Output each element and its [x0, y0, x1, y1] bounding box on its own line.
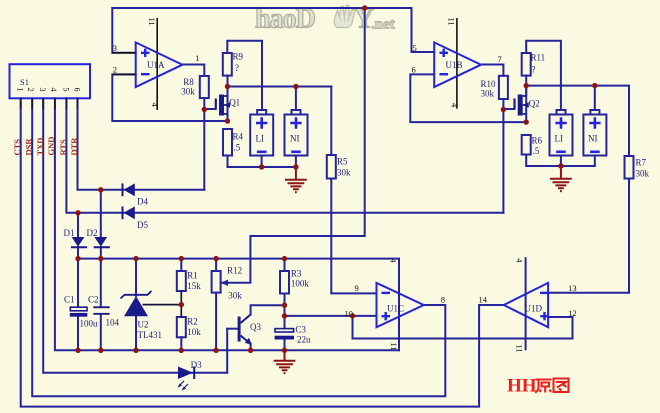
- svg-text:1: 1: [16, 88, 25, 92]
- battery NI right: [583, 110, 606, 156]
- svg-text:C2: C2: [88, 295, 99, 305]
- wire GND rail: [55, 98, 399, 350]
- BJT Q3: [238, 315, 252, 346]
- svg-text:D3: D3: [191, 360, 202, 370]
- svg-text:R2: R2: [187, 317, 198, 327]
- svg-text:D5: D5: [137, 220, 148, 230]
- wire R3 column with C3: [284, 259, 286, 351]
- svg-text:100u: 100u: [80, 319, 99, 329]
- wire Q2 gate lead: [503, 108, 514, 110]
- svg-text:3: 3: [38, 88, 47, 92]
- diode D4: [123, 183, 135, 196]
- svg-text:30k: 30k: [337, 168, 351, 178]
- wire R8 bottom to gate junction and D4 line: [203, 98, 205, 190]
- svg-text:22u: 22u: [297, 335, 311, 345]
- svg-text:2: 2: [113, 65, 117, 75]
- wire DSR to U1C output pin8: [32, 98, 445, 396]
- wire R10 bottom to Q2 gate junction and RTS line: [502, 99, 504, 213]
- wire Q2 drain source column: [525, 86, 527, 123]
- wire U1A output to R8: [182, 65, 204, 77]
- op-amp U1A: [112, 18, 182, 110]
- svg-text:CTS: CTS: [12, 139, 22, 156]
- MOSFET Q1: [216, 95, 230, 116]
- svg-text:14: 14: [479, 295, 488, 305]
- potentiometer R12: [212, 271, 229, 293]
- svg-text:3: 3: [113, 43, 117, 53]
- svg-text:LI: LI: [256, 134, 265, 144]
- svg-text:8: 8: [441, 295, 445, 305]
- resistor R6: [522, 135, 531, 155]
- svg-text:7: 7: [498, 54, 502, 64]
- resistor R3: [280, 271, 289, 294]
- svg-text:R3: R3: [291, 269, 302, 279]
- wire R6 stub and right battery bottom rail: [526, 155, 595, 167]
- wire right NI top lead: [594, 86, 596, 110]
- svg-text:15k: 15k: [187, 281, 201, 291]
- battery LI left: [250, 110, 273, 156]
- wire riser from top rail to RTS net and R12 wiper: [221, 8, 365, 283]
- red caption HH original: [507, 376, 569, 397]
- svg-text:U1D: U1D: [525, 304, 543, 314]
- svg-text:11: 11: [515, 345, 525, 353]
- svg-text:RTS: RTS: [58, 139, 68, 156]
- wire U2 column: [135, 259, 137, 351]
- svg-text:R6: R6: [532, 136, 543, 146]
- svg-text:10k: 10k: [187, 327, 201, 337]
- op-amp U1B: [434, 18, 481, 109]
- wire U2 ref to R1 R2 junction: [21, 98, 182, 317]
- svg-text:R4: R4: [233, 132, 244, 142]
- capacitor C3: [275, 329, 294, 340]
- op-amp U1C: [377, 283, 424, 327]
- svg-text:D4: D4: [137, 197, 148, 207]
- wire R11 bottom to Q2 drain: [525, 76, 527, 95]
- diode D2: [94, 237, 110, 247]
- svg-text:R11: R11: [531, 53, 546, 63]
- svg-text:R12: R12: [227, 266, 242, 276]
- svg-text:C1: C1: [64, 295, 75, 305]
- svg-text:Q3: Q3: [250, 322, 261, 332]
- ground C3: [274, 350, 296, 373]
- ground left battery: [285, 167, 307, 192]
- resistor R9: [223, 53, 232, 76]
- wire C2 column: [100, 259, 102, 351]
- TL431 U2: [121, 291, 152, 316]
- svg-text:DTR: DTR: [69, 137, 79, 156]
- wire top rail left drop to U1A pin3: [112, 8, 135, 53]
- svg-text:R10: R10: [481, 79, 497, 89]
- wire R12 column: [215, 259, 217, 351]
- svg-text:5: 5: [61, 88, 70, 92]
- svg-text:R9: R9: [233, 52, 244, 62]
- svg-text:NI: NI: [588, 134, 598, 144]
- svg-text:Q1: Q1: [229, 98, 240, 108]
- svg-text:1: 1: [195, 53, 199, 63]
- svg-text:LI: LI: [555, 134, 564, 144]
- svg-text:TXD: TXD: [35, 138, 45, 156]
- wire Q1 gate lead: [204, 108, 215, 110]
- svg-text:6: 6: [72, 88, 81, 92]
- svg-text:D1: D1: [64, 228, 75, 238]
- battery NI left: [285, 110, 308, 156]
- svg-text:6: 6: [412, 65, 416, 75]
- resistor R8: [200, 76, 209, 98]
- wire U1B pin6 feedback to Q2 source: [410, 74, 526, 122]
- wire NI left top lead: [295, 87, 297, 111]
- watermark haoDIY.net logo: [255, 4, 395, 35]
- wire U1A pin2 feedback to Q1 source: [112, 74, 227, 121]
- resistor R1: [177, 271, 186, 291]
- svg-text:5: 5: [413, 43, 417, 53]
- wire left battery top rail: [228, 86, 332, 88]
- wire right NI bottom lead: [594, 156, 596, 167]
- svg-text:?: ?: [532, 65, 536, 75]
- svg-text:2: 2: [26, 88, 35, 92]
- wire LI left bottom lead: [261, 156, 263, 168]
- svg-text:U1C: U1C: [387, 304, 404, 314]
- wire R11 top loop to right LI+: [526, 41, 561, 110]
- svg-text:.net: .net: [371, 17, 395, 33]
- wire R3 C3 junction to U1C pin10: [285, 315, 377, 317]
- wire D1 column: [77, 213, 79, 259]
- wire U1B output to R10: [481, 65, 503, 76]
- ground right battery: [550, 166, 572, 191]
- svg-text:U1B: U1B: [446, 60, 463, 70]
- svg-text:U2: U2: [138, 320, 149, 330]
- svg-text:NI: NI: [290, 134, 300, 144]
- wire U1D power column: [525, 258, 527, 349]
- wire C1 column: [77, 259, 79, 351]
- wire R9 top loop to LI+: [227, 41, 262, 110]
- op-amp U1D points left: [504, 283, 549, 327]
- svg-text:.5: .5: [234, 143, 241, 153]
- svg-text:GND: GND: [46, 137, 56, 156]
- svg-text:TL431: TL431: [138, 330, 163, 340]
- capacitor C1: [70, 307, 88, 316]
- wire U1D pin13 through R7 to right rail: [548, 86, 629, 293]
- svg-text:10: 10: [345, 308, 354, 318]
- svg-text:Q2: Q2: [529, 99, 540, 109]
- svg-text:104: 104: [106, 318, 120, 328]
- svg-text:U1A: U1A: [147, 60, 165, 70]
- wire U1B pin5 from top rail: [412, 8, 435, 52]
- MOSFET Q2: [515, 95, 529, 116]
- svg-text:4: 4: [49, 88, 58, 92]
- wire Q3 collector to R3: [251, 305, 285, 314]
- wire V+ rail to U1C pin4: [78, 258, 399, 260]
- svg-text:S1: S1: [20, 77, 29, 87]
- wire R9 bottom to Q1 drain: [227, 76, 229, 121]
- svg-text:30k: 30k: [228, 291, 242, 301]
- svg-text:R1: R1: [187, 271, 198, 281]
- svg-text:100k: 100k: [291, 279, 310, 289]
- wire D5 RTS line: [66, 98, 503, 213]
- svg-text:30k: 30k: [636, 169, 650, 179]
- svg-text:R7: R7: [636, 158, 647, 168]
- svg-text:30k: 30k: [481, 89, 495, 99]
- wire U1C power column: [398, 259, 400, 351]
- wire D4 DTR line: [78, 98, 205, 190]
- resistor R5: [327, 155, 336, 179]
- wire D2 column: [100, 190, 102, 259]
- S1 pin stubs: [21, 98, 78, 109]
- wire R4 stub and left battery bottom rail: [228, 156, 296, 168]
- wire U1C pin10 loop to U1D pin12: [353, 316, 573, 339]
- svg-text:12: 12: [568, 308, 577, 318]
- diode D5: [123, 206, 135, 219]
- svg-text:D2: D2: [87, 228, 98, 238]
- svg-text:?: ?: [235, 63, 239, 73]
- svg-text:DSR: DSR: [24, 138, 34, 156]
- wire Q3 base from D3 riser: [227, 328, 237, 330]
- diode D1: [71, 237, 87, 247]
- LED D3: [178, 367, 195, 391]
- svg-text:R5: R5: [337, 157, 348, 167]
- component value labels: [64, 52, 650, 371]
- pin number labels: [113, 18, 577, 353]
- wire R5 column to U1C pin9: [331, 87, 376, 294]
- capacitor C2: [93, 306, 109, 315]
- svg-text:13: 13: [568, 283, 577, 293]
- resistor R4: [223, 129, 232, 156]
- battery LI right: [550, 110, 573, 156]
- svg-text:11: 11: [389, 343, 399, 351]
- svg-text:30k: 30k: [181, 86, 195, 96]
- connector S1: [10, 64, 91, 98]
- svg-text:HH: HH: [507, 376, 537, 397]
- wire NI left bottom lead: [295, 156, 297, 168]
- svg-text:9: 9: [355, 283, 359, 293]
- wire right LI bottom lead: [560, 156, 562, 167]
- resistor R10: [499, 76, 508, 99]
- resistor R2: [177, 317, 186, 337]
- wire Q3 emitter drop: [250, 344, 252, 351]
- wire right battery top rail: [526, 85, 629, 87]
- wire R1 R2 column: [180, 259, 182, 351]
- wire CTS to U1D output pin14: [21, 98, 504, 406]
- svg-text:C3: C3: [295, 325, 306, 335]
- resistor R11: [522, 53, 531, 76]
- svg-text:.5: .5: [533, 146, 540, 156]
- svg-text:11: 11: [447, 18, 457, 26]
- resistor R7: [625, 156, 634, 179]
- wire TXD D3 line: [43, 98, 227, 373]
- svg-text:11: 11: [147, 18, 157, 26]
